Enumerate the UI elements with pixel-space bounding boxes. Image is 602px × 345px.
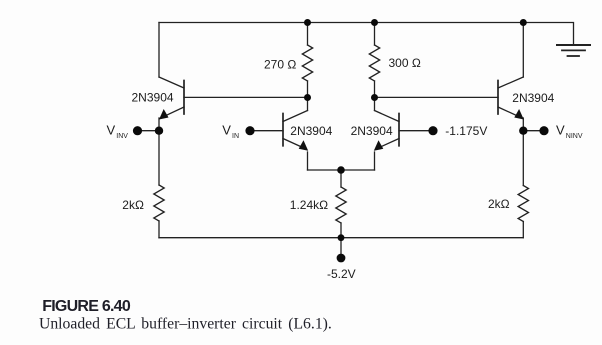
svg-text:-5.2V: -5.2V: [327, 267, 356, 281]
svg-text:270 Ω: 270 Ω: [264, 58, 296, 72]
svg-text:V: V: [222, 123, 231, 138]
svg-text:-1.175V: -1.175V: [445, 124, 487, 138]
svg-text:FIGURE 6.40: FIGURE 6.40: [42, 298, 131, 315]
svg-text:2N3904: 2N3904: [512, 91, 554, 105]
svg-text:V: V: [107, 123, 116, 138]
svg-text:2kΩ: 2kΩ: [488, 197, 510, 211]
svg-text:Unloaded ECL buffer–inverter c: Unloaded ECL buffer–inverter circuit (L6…: [39, 316, 332, 333]
svg-text:INV: INV: [116, 133, 128, 140]
svg-text:1.24kΩ: 1.24kΩ: [290, 198, 328, 212]
svg-text:NINV: NINV: [566, 133, 583, 140]
svg-text:2kΩ: 2kΩ: [122, 198, 144, 212]
svg-text:300 Ω: 300 Ω: [389, 56, 421, 70]
svg-text:V: V: [556, 123, 565, 138]
svg-text:IN: IN: [232, 133, 239, 140]
svg-text:2N3904: 2N3904: [290, 124, 332, 138]
svg-text:2N3904: 2N3904: [351, 124, 393, 138]
svg-text:2N3904: 2N3904: [132, 90, 174, 104]
